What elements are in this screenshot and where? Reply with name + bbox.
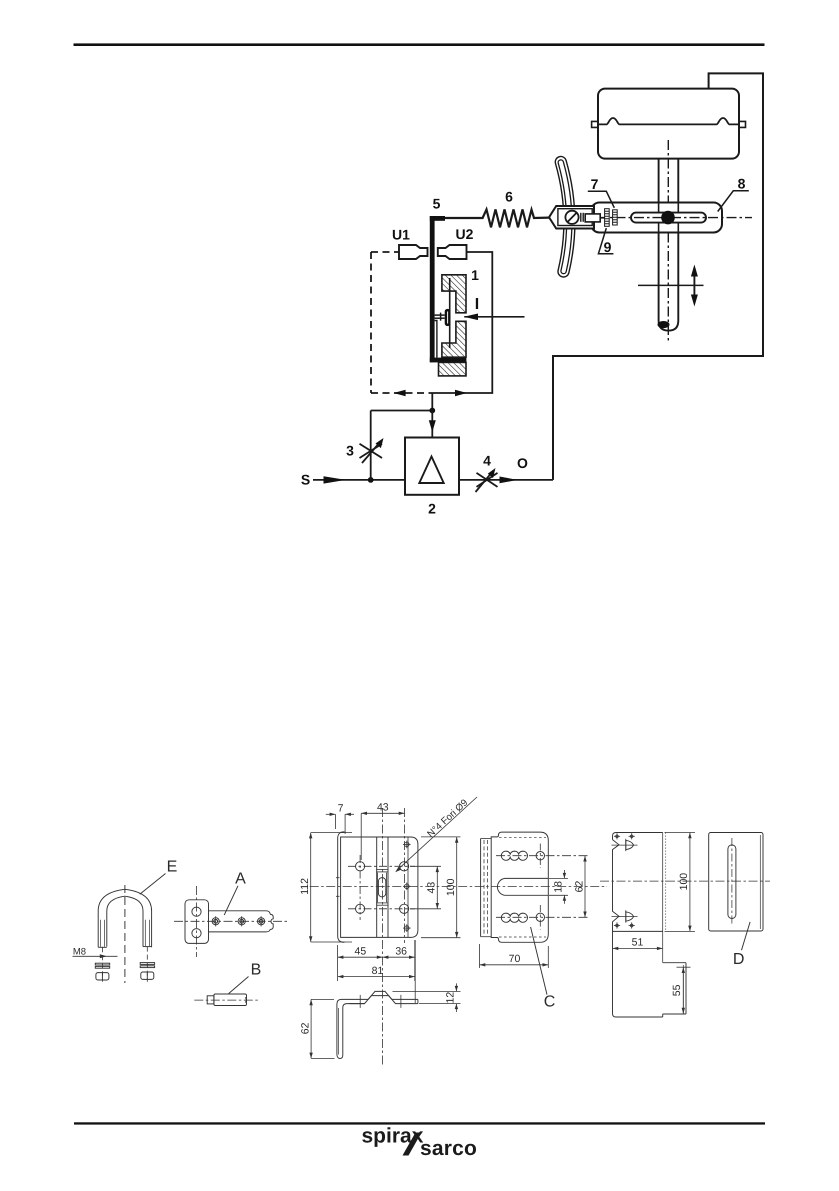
plate bend lines <box>376 837 378 937</box>
plate front view body <box>341 837 418 937</box>
svg-text:4: 4 <box>483 453 491 469</box>
input I arrow <box>464 316 524 318</box>
arm slot <box>631 213 706 223</box>
svg-text:E: E <box>167 859 178 876</box>
svg-text:C: C <box>544 994 556 1011</box>
ext line right of 81 down to profile <box>414 940 416 1003</box>
svg-text:U2: U2 <box>456 226 474 242</box>
dim 112 <box>311 833 352 942</box>
svg-text:B: B <box>251 962 262 979</box>
part C holes <box>536 852 544 860</box>
plate central slot <box>378 878 385 897</box>
arrow right on solid line <box>455 390 467 396</box>
actuator stem <box>659 159 679 331</box>
dim 55 <box>677 967 691 1013</box>
slot bend ticks <box>376 870 388 906</box>
plate holes right column <box>400 862 409 871</box>
dim 7 <box>326 814 354 834</box>
svg-text:sarco: sarco <box>420 1137 477 1160</box>
part A plate <box>185 900 273 944</box>
svg-text:S: S <box>301 472 310 488</box>
svg-text:12: 12 <box>445 992 457 1004</box>
adjuster 9 (toothed rack) <box>605 209 618 227</box>
dim 43 right <box>410 866 441 909</box>
stem centerline <box>667 140 669 341</box>
wire O-pipe from actuator top around right side <box>553 73 763 480</box>
part E centerline <box>124 885 126 983</box>
part D wedge symbols <box>612 839 638 923</box>
supply S line <box>313 479 405 481</box>
bottom rule <box>74 1122 765 1124</box>
svg-text:7: 7 <box>591 176 599 192</box>
svg-text:1: 1 <box>471 267 479 283</box>
svg-text:8: 8 <box>738 176 746 192</box>
part E washers <box>95 963 154 969</box>
svg-text:112: 112 <box>299 878 311 895</box>
svg-text:7: 7 <box>338 803 344 815</box>
node S junction <box>368 477 374 483</box>
part C body <box>491 832 548 942</box>
main horizontal centerline <box>310 885 607 887</box>
dim 43 top <box>361 813 404 860</box>
lever fork <box>561 162 570 272</box>
svg-text:N°4 Fori Ø9: N°4 Fori Ø9 <box>425 797 470 839</box>
part D left view outline <box>613 833 687 1018</box>
part D right view <box>709 833 763 932</box>
beam-spool link <box>435 313 445 321</box>
plate holes left column <box>356 862 365 871</box>
flapper beam 5 (thick) <box>430 216 467 362</box>
plate vertical centerline <box>382 808 384 1066</box>
svg-text:62: 62 <box>573 881 585 893</box>
svg-text:A: A <box>235 871 246 888</box>
stem end cap <box>658 321 670 328</box>
part D centerline <box>600 880 770 882</box>
nozzle U2 <box>438 245 467 259</box>
profile view body <box>337 991 418 1058</box>
svg-text:U1: U1 <box>392 227 410 243</box>
relay triangle <box>419 457 443 484</box>
hole row centerlines <box>348 855 415 920</box>
dashed feedback loop left <box>371 252 430 393</box>
restrictor 3 <box>360 442 383 464</box>
node junction above relay <box>431 393 433 411</box>
clamp 7 assembly <box>549 206 605 229</box>
part C left flange <box>481 839 492 937</box>
stroke double arrow <box>691 265 698 307</box>
pilot valve 1 base <box>439 362 467 376</box>
svg-text:I: I <box>475 296 479 313</box>
stem through arm <box>658 203 660 233</box>
nozzle U1 <box>399 245 428 259</box>
solid loop right from U2 <box>430 252 492 393</box>
wire into relay with down arrow <box>431 411 433 438</box>
svg-text:3: 3 <box>346 443 354 459</box>
part A holes <box>192 907 265 938</box>
svg-text:45: 45 <box>355 945 367 957</box>
part C scalloped slot bottom <box>501 913 527 922</box>
relay 2 box <box>405 438 459 495</box>
arm centerline <box>597 217 752 219</box>
small screw holes <box>403 841 411 932</box>
svg-text:43: 43 <box>377 802 389 814</box>
pilot valve 1 lower body <box>442 321 466 357</box>
dim 70 <box>480 944 549 968</box>
profile bend ticks <box>360 995 401 1008</box>
part A centerlines <box>196 886 198 957</box>
chamber wall <box>435 321 437 358</box>
spirax sarco logo <box>362 1125 478 1160</box>
spring 6 <box>445 209 550 227</box>
svg-text:18: 18 <box>553 881 565 893</box>
svg-text:M8: M8 <box>73 947 86 958</box>
part D small cross holes <box>614 833 635 928</box>
svg-text:81: 81 <box>372 965 384 977</box>
part B centerline <box>194 999 258 1001</box>
svg-text:5: 5 <box>433 196 441 212</box>
svg-text:51: 51 <box>632 937 644 949</box>
plate slot channel walls <box>377 873 379 903</box>
stroke position tick <box>638 284 704 286</box>
svg-text:62: 62 <box>299 1022 311 1034</box>
part E stud centerlines <box>102 947 104 981</box>
top rule <box>74 43 765 46</box>
plate left flange edge <box>338 832 345 942</box>
pilot valve 1 upper body <box>442 275 466 313</box>
svg-text:D: D <box>733 951 745 968</box>
svg-text:55: 55 <box>671 984 683 996</box>
dim 51 <box>613 947 663 949</box>
pivot dot <box>661 211 675 225</box>
dim 62 profile <box>311 999 334 1058</box>
part B pin <box>207 994 246 1006</box>
svg-text:2: 2 <box>428 501 436 517</box>
svg-text:100: 100 <box>445 878 457 896</box>
dim 18 <box>549 870 568 904</box>
svg-text:70: 70 <box>509 953 521 965</box>
svg-text:100: 100 <box>678 873 690 891</box>
actuator <box>592 89 746 159</box>
output line with restrictor 4 <box>459 479 553 481</box>
svg-text:6: 6 <box>505 189 513 205</box>
dim 12 profile <box>393 983 461 1012</box>
part C scalloped slot top <box>501 851 527 860</box>
svg-text:9: 9 <box>604 239 612 255</box>
svg-text:O: O <box>517 455 528 471</box>
arrow left on dashed line <box>394 390 406 396</box>
dim 100 right <box>421 837 461 938</box>
part C row centerlines <box>496 856 589 918</box>
svg-text:43: 43 <box>426 882 438 894</box>
spool stem <box>449 278 451 348</box>
part C finger slot <box>497 878 548 895</box>
dim 100 D <box>689 833 691 932</box>
svg-text:36: 36 <box>395 945 407 957</box>
arm 8 (slotted feedback arm) <box>591 203 722 233</box>
dim 45 36 <box>338 940 415 981</box>
part E nuts <box>96 972 154 980</box>
dim 62 right <box>584 856 586 918</box>
part E U-bolt <box>98 889 151 947</box>
wire bleed branch <box>370 411 372 480</box>
spool land <box>445 309 451 326</box>
dim 81 <box>338 976 415 978</box>
